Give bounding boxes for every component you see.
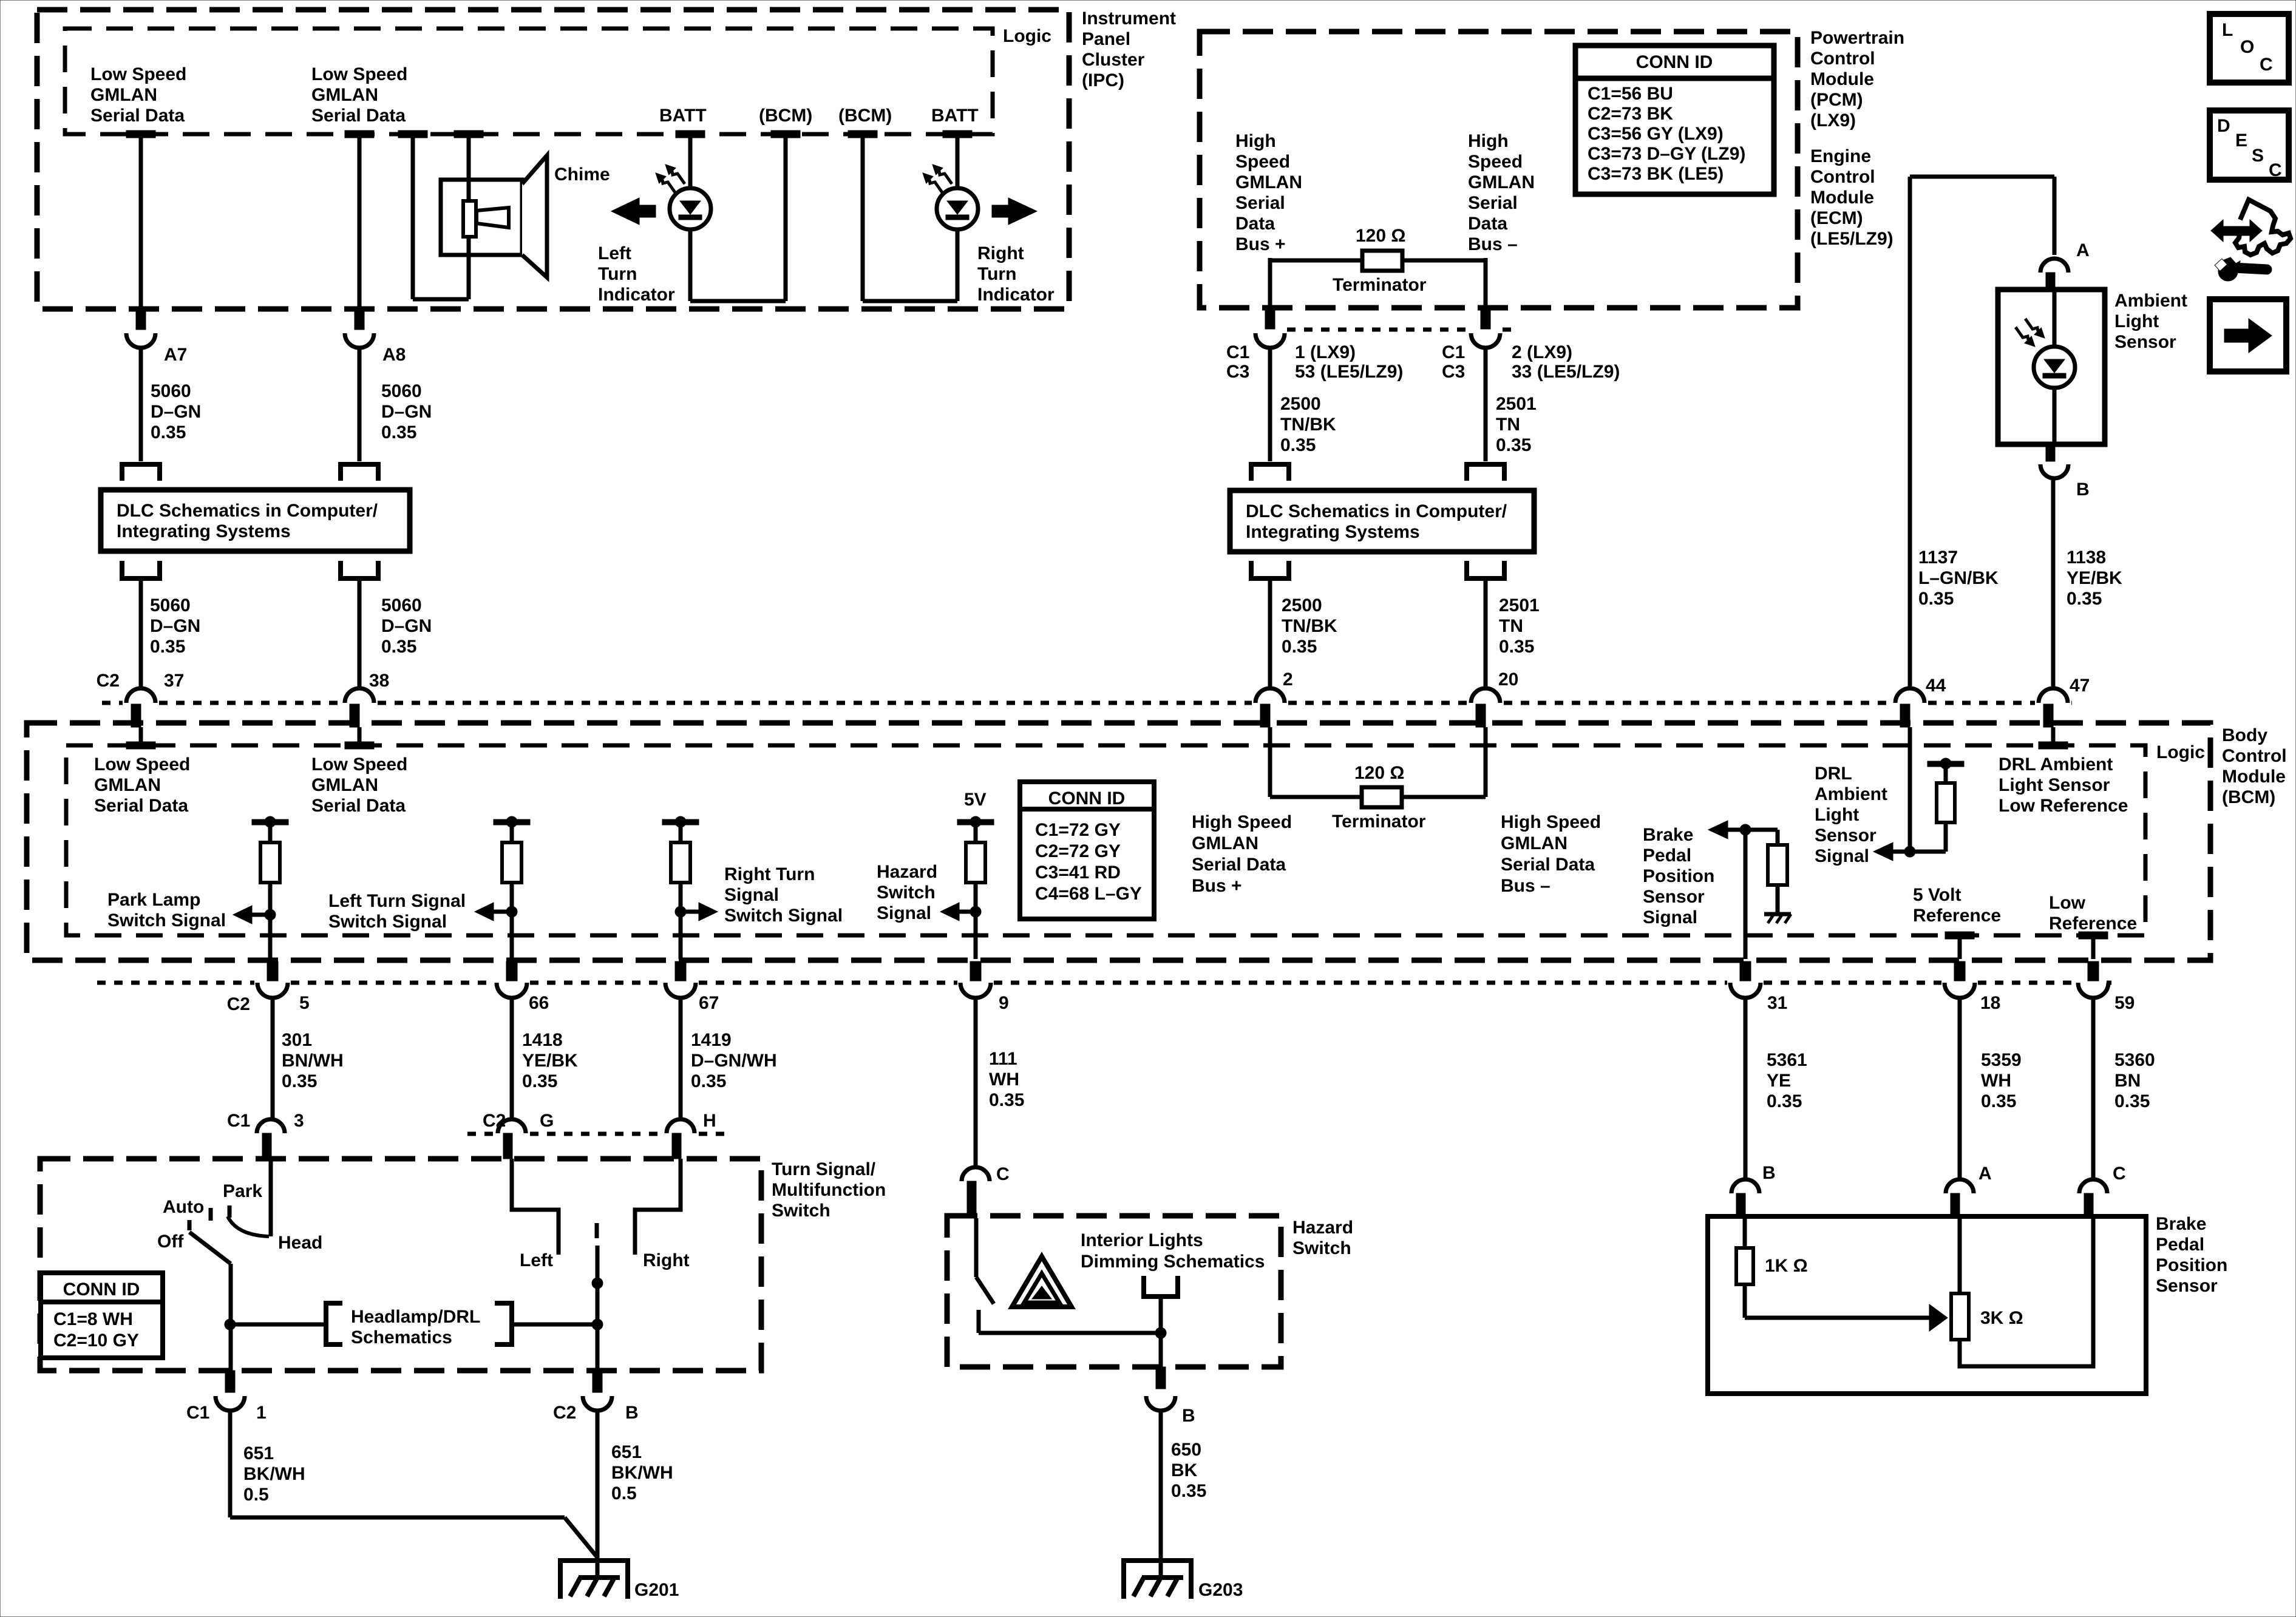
svg-text:2501: 2501 — [1496, 394, 1537, 414]
svg-text:44: 44 — [1926, 676, 1946, 696]
svg-text:Integrating Systems: Integrating Systems — [117, 521, 291, 541]
svg-text:L–GN/BK: L–GN/BK — [1918, 568, 1999, 588]
svg-text:1K Ω: 1K Ω — [1765, 1256, 1808, 1276]
contact stub Off — [188, 1220, 192, 1230]
svg-text:Control: Control — [1810, 167, 1875, 187]
svg-text:Cluster: Cluster — [1082, 50, 1145, 70]
svg-text:2: 2 — [1283, 670, 1293, 690]
label Left Turn Signal Switch Signal — [328, 891, 466, 932]
svg-text:S: S — [2252, 146, 2264, 166]
svg-text:0.5: 0.5 — [611, 1483, 637, 1503]
svg-text:Bus +: Bus + — [1192, 876, 1242, 896]
net label Low Speed GMLAN Serial Data (BCM right) — [311, 754, 407, 816]
svg-text:5060: 5060 — [381, 381, 422, 401]
svg-text:Terminator: Terminator — [1332, 812, 1426, 832]
svg-text:Light: Light — [2114, 311, 2159, 331]
svg-text:0.35: 0.35 — [1282, 637, 1317, 657]
wire 1138 — [2051, 478, 2056, 690]
svg-text:Data: Data — [1468, 214, 1507, 234]
label Hazard Switch Signal — [877, 862, 937, 923]
svg-text:C3=73 BK (LE5): C3=73 BK (LE5) — [1588, 164, 1724, 184]
left turn junction dot — [506, 906, 517, 917]
svg-text:TN/BK: TN/BK — [1282, 616, 1337, 636]
svg-text:Bus –: Bus – — [1501, 876, 1550, 896]
svg-text:G: G — [540, 1111, 554, 1131]
hazard switch input wire — [974, 1218, 979, 1277]
svg-text:B: B — [2076, 480, 2090, 500]
BCM terminator wires — [1270, 727, 1486, 797]
bracket above DLC box2 left — [1251, 464, 1289, 481]
connector label C1 C3 (left) — [1226, 342, 1249, 382]
svg-text:B: B — [625, 1403, 639, 1423]
brake pedal position sensor box — [1708, 1216, 2146, 1394]
svg-text:Reference: Reference — [2049, 914, 2137, 934]
svg-text:CONN ID: CONN ID — [63, 1280, 140, 1300]
svg-text:D–GN: D–GN — [151, 402, 201, 422]
svg-text:Left: Left — [598, 243, 631, 263]
wire from headlamp/DRL schematics (right) — [512, 1323, 597, 1327]
svg-text:High: High — [1468, 131, 1509, 151]
svg-text:Brake: Brake — [1643, 825, 1693, 845]
headlamp switch common wire — [269, 1159, 273, 1236]
svg-text:2500: 2500 — [1280, 394, 1321, 414]
wire 650 to ground — [1159, 1409, 1163, 1578]
svg-text:5060: 5060 — [150, 595, 191, 615]
svg-text:Module: Module — [1810, 69, 1874, 89]
svg-text:Serial Data: Serial Data — [94, 796, 188, 816]
svg-text:Sensor: Sensor — [2156, 1276, 2218, 1296]
svg-text:YE: YE — [1767, 1071, 1791, 1091]
svg-text:C1: C1 — [227, 1111, 250, 1131]
wire label 1137 L-GN/BK 0.35 — [1918, 547, 1999, 609]
wire label 5060 D-GN 0.35 (upper left) — [151, 381, 201, 442]
svg-text:Terminator: Terminator — [1333, 275, 1427, 295]
svg-text:Sensor: Sensor — [2114, 332, 2176, 352]
switch pin H connector — [667, 1119, 695, 1159]
svg-text:D–GN: D–GN — [150, 616, 200, 636]
pin label 1 (LX9) 53 (LE5/LZ9) — [1295, 342, 1403, 382]
svg-text:Dimming Schematics: Dimming Schematics — [1081, 1252, 1265, 1272]
svg-text:DRL: DRL — [1815, 764, 1852, 784]
net label Low Speed GMLAN Serial Data (BCM left) — [94, 754, 190, 816]
svg-text:Module: Module — [1810, 188, 1874, 208]
wire 111 — [974, 997, 978, 1168]
label 5 Volt Reference — [1913, 885, 2001, 926]
sensor pin B connector (BPP) — [1731, 1179, 1759, 1218]
svg-text:GMLAN: GMLAN — [1192, 833, 1258, 853]
svg-text:C2: C2 — [553, 1403, 576, 1423]
svg-text:Left Turn Signal: Left Turn Signal — [328, 891, 466, 911]
svg-text:C3=73 D–GY (LZ9): C3=73 D–GY (LZ9) — [1588, 144, 1745, 164]
svg-text:Sensor: Sensor — [1643, 887, 1705, 907]
svg-text:5 Volt: 5 Volt — [1913, 885, 1961, 905]
svg-text:Switch: Switch — [1292, 1238, 1351, 1258]
svg-text:1138: 1138 — [2067, 547, 2106, 568]
BCM pin 18 connector — [1944, 961, 1975, 998]
svg-text:BN: BN — [2114, 1071, 2141, 1091]
CONN ID table (switch) — [41, 1273, 163, 1358]
resistor 3K ohm (potentiometer) — [1951, 1216, 1969, 1340]
svg-text:C1=8 WH: C1=8 WH — [53, 1309, 133, 1329]
label Interior Lights Dimming Schematics — [1081, 1230, 1265, 1272]
svg-text:DLC Schematics in Computer/: DLC Schematics in Computer/ — [117, 501, 378, 521]
svg-text:650: 650 — [1171, 1440, 1201, 1460]
svg-text:Sensor: Sensor — [1815, 825, 1877, 846]
CONN ID table (PCM) — [1575, 46, 1774, 194]
svg-text:0.35: 0.35 — [151, 422, 186, 442]
BCM pin 59 connector — [2078, 961, 2108, 998]
svg-text:Bus +: Bus + — [1235, 234, 1286, 254]
right turn junction dot — [675, 906, 686, 917]
svg-text:(ECM): (ECM) — [1810, 208, 1863, 228]
svg-text:38: 38 — [369, 671, 389, 691]
switch pin C2-B connector — [583, 1371, 612, 1411]
svg-text:33 (LE5/LZ9): 33 (LE5/LZ9) — [1512, 362, 1620, 382]
svg-text:5361: 5361 — [1767, 1050, 1807, 1070]
svg-text:0.35: 0.35 — [150, 637, 185, 657]
wire 301 — [271, 997, 275, 1120]
svg-text:TN: TN — [1499, 616, 1523, 636]
switch pin C connector — [962, 1167, 990, 1218]
bracket above DLC box right — [341, 464, 378, 481]
svg-text:Serial: Serial — [1235, 193, 1285, 213]
svg-text:TN/BK: TN/BK — [1280, 415, 1336, 435]
chime speaker symbol — [441, 155, 547, 277]
svg-text:0.35: 0.35 — [2114, 1091, 2150, 1111]
svg-text:GMLAN: GMLAN — [1501, 833, 1567, 853]
svg-text:GMLAN: GMLAN — [311, 85, 378, 105]
svg-text:Left: Left — [520, 1250, 553, 1270]
ground G201 — [560, 1561, 628, 1599]
BCM pin 37 connector — [126, 688, 155, 749]
svg-text:A: A — [1978, 1164, 1992, 1184]
svg-text:5360: 5360 — [2114, 1050, 2155, 1070]
wire 1137 routing loop — [1910, 177, 2054, 690]
svg-text:C2=72 GY: C2=72 GY — [1035, 841, 1121, 861]
svg-text:B: B — [1182, 1406, 1195, 1426]
svg-text:H: H — [703, 1111, 716, 1131]
svg-text:5359: 5359 — [1981, 1050, 2022, 1070]
wire 5060 upper left — [139, 347, 143, 461]
headlamp switch output wire — [225, 1264, 236, 1371]
svg-text:Headlamp/DRL: Headlamp/DRL — [351, 1307, 480, 1327]
svg-text:Instrument: Instrument — [1082, 8, 1176, 29]
wire label 2500 TN/BK 0.35 (lower) — [1282, 595, 1337, 657]
svg-text:120 Ω: 120 Ω — [1356, 226, 1405, 246]
switch pin C1-1 connector — [216, 1371, 245, 1411]
svg-text:Hazard: Hazard — [1292, 1218, 1353, 1238]
svg-text:Signal: Signal — [1815, 846, 1869, 866]
svg-text:Reference: Reference — [1913, 906, 2001, 926]
CONN ID table (BCM) — [1020, 782, 1154, 919]
DRL signal junction dot — [1904, 846, 1915, 857]
svg-text:66: 66 — [529, 993, 549, 1013]
svg-text:Serial: Serial — [1468, 193, 1518, 213]
LOC icon box — [2210, 14, 2289, 83]
DRL pull-up resistor — [1910, 766, 1955, 852]
svg-text:0.35: 0.35 — [691, 1071, 726, 1091]
svg-text:Signal: Signal — [1643, 907, 1697, 927]
svg-text:BATT: BATT — [931, 106, 979, 126]
net label High Speed GMLAN Serial Data Bus + (PCM) — [1235, 131, 1302, 254]
svg-text:C1: C1 — [1442, 342, 1465, 362]
svg-text:High Speed: High Speed — [1192, 812, 1292, 832]
svg-text:Indicator: Indicator — [598, 285, 675, 305]
svg-text:L: L — [2222, 20, 2233, 40]
service icon jagged outline — [2235, 200, 2291, 255]
headlamp switch throw arc — [228, 1216, 269, 1236]
turn switch Right contact — [635, 1159, 681, 1255]
hazard switch bus wire — [979, 1327, 1166, 1338]
svg-text:5060: 5060 — [381, 595, 422, 615]
svg-text:DRL Ambient: DRL Ambient — [1999, 754, 2113, 775]
wire label 650 BK 0.35 — [1171, 1440, 1206, 1501]
wire label 5060 D-GN 0.35 (upper right) — [381, 381, 432, 442]
svg-text:0.35: 0.35 — [381, 637, 416, 657]
label DRL Ambient Light Sensor Low Reference — [1999, 754, 2128, 816]
svg-text:0.5: 0.5 — [243, 1485, 269, 1505]
resistor 1K ohm — [1736, 1216, 1753, 1318]
label DRL Ambient Light Sensor Signal — [1815, 764, 1887, 866]
svg-text:Park Lamp: Park Lamp — [107, 890, 200, 910]
left turn pull-up rail T-bar — [494, 816, 530, 827]
table rows CONN ID (BCM) — [1035, 820, 1142, 904]
svg-text:Chime: Chime — [554, 164, 610, 185]
svg-text:A: A — [2076, 240, 2090, 260]
BCM pin 38 connector — [345, 688, 374, 749]
svg-text:(BCM): (BCM) — [759, 106, 812, 126]
svg-text:5: 5 — [299, 993, 310, 1013]
switch connector dotted line — [467, 1132, 494, 1136]
wire 651 left to ground — [230, 1409, 598, 1558]
wire 5360 — [2091, 997, 2096, 1181]
wire label 2501 TN 0.35 (lower) — [1499, 595, 1540, 657]
svg-text:Control: Control — [1810, 49, 1875, 69]
svg-text:1137: 1137 — [1918, 547, 1958, 568]
svg-text:1: 1 — [256, 1403, 267, 1423]
svg-text:2 (LX9): 2 (LX9) — [1512, 342, 1572, 362]
label Low Reference — [2049, 893, 2137, 934]
wire 2501 upper — [1484, 347, 1488, 461]
PCM pin 1/53 connector — [1255, 308, 1285, 348]
turn signal multifunction switch dashed box — [40, 1159, 761, 1371]
LED right turn indicator — [923, 164, 978, 229]
svg-text:Serial Data: Serial Data — [311, 796, 406, 816]
svg-text:Right: Right — [643, 1250, 690, 1270]
wire A7 inside IPC — [126, 131, 155, 309]
BCM pin 31 connector — [1730, 961, 1761, 998]
label Right Turn Signal Switch Signal — [724, 864, 843, 926]
ground G203 — [1124, 1561, 1191, 1599]
label Headlamp/DRL Schematics — [351, 1307, 480, 1347]
wire label 5361 YE 0.35 — [1767, 1050, 1807, 1111]
BCM pin 44 connector — [1895, 688, 1924, 727]
BCM top dotted connector line — [102, 701, 123, 705]
svg-text:Logic: Logic — [1003, 26, 1051, 46]
connector pin A8 — [345, 309, 374, 348]
wire 5361 — [1744, 997, 1748, 1181]
label Turn Signal/Multifunction Switch — [772, 1159, 886, 1221]
svg-text:Engine: Engine — [1810, 146, 1871, 166]
svg-text:D: D — [2217, 116, 2230, 136]
svg-text:18: 18 — [1980, 993, 2000, 1013]
svg-text:C3: C3 — [1442, 362, 1465, 382]
svg-text:0.35: 0.35 — [522, 1071, 557, 1091]
hazard switch dashed box — [947, 1216, 1281, 1367]
BCM pin 67 connector — [665, 961, 696, 998]
wire label 301 BN/WH 0.35 — [282, 1030, 344, 1091]
svg-text:B: B — [1762, 1163, 1776, 1183]
svg-text:O: O — [2240, 37, 2254, 57]
label Powertrain Control Module (PCM) (LX9) — [1810, 28, 1904, 131]
svg-text:Switch Signal: Switch Signal — [328, 912, 447, 932]
svg-text:0.35: 0.35 — [1280, 435, 1316, 455]
BCM inner Logic dashed box — [66, 745, 2145, 935]
service icon wrench — [2215, 257, 2272, 281]
PCM connector dotted line — [1287, 328, 1469, 332]
BCM bottom dotted connector line — [97, 981, 254, 985]
svg-text:CONN ID: CONN ID — [1048, 788, 1126, 808]
svg-text:53 (LE5/LZ9): 53 (LE5/LZ9) — [1295, 362, 1403, 382]
svg-text:C2=73 BK: C2=73 BK — [1588, 104, 1673, 124]
wire label 5359 WH 0.35 — [1981, 1050, 2022, 1111]
photodiode (ambient light sensor) — [2016, 319, 2075, 388]
svg-text:0.35: 0.35 — [1171, 1481, 1206, 1501]
wire label 1418 YE/BK 0.35 — [522, 1030, 578, 1091]
turn switch common lever stub — [595, 1223, 599, 1238]
svg-text:Serial Data: Serial Data — [311, 106, 406, 126]
svg-text:Pedal: Pedal — [1643, 846, 1691, 866]
svg-text:C4=68 L–GY: C4=68 L–GY — [1035, 884, 1142, 904]
contact stub Park — [228, 1205, 232, 1218]
wire label 1138 YE/BK 0.35 — [2067, 547, 2122, 609]
svg-text:651: 651 — [243, 1443, 274, 1463]
PCM pin 2/33 connector — [1471, 308, 1500, 348]
svg-text:Off: Off — [157, 1232, 184, 1252]
bracket above DLC box left — [122, 464, 160, 481]
svg-text:Position: Position — [2156, 1255, 2227, 1275]
svg-text:20: 20 — [1498, 670, 1518, 690]
svg-text:WH: WH — [1981, 1071, 2011, 1091]
svg-text:Turn Signal/: Turn Signal/ — [772, 1159, 876, 1179]
svg-text:Indicator: Indicator — [977, 285, 1055, 305]
pin label 2 (LX9) 33 (LE5/LZ9) — [1512, 342, 1620, 382]
svg-text:Low Speed: Low Speed — [311, 754, 407, 775]
svg-text:Low Speed: Low Speed — [94, 754, 190, 775]
wire 5060 lower left — [139, 578, 143, 690]
svg-text:Low Speed: Low Speed — [90, 64, 186, 84]
svg-text:C: C — [2269, 160, 2282, 180]
left turn signal arrow — [475, 903, 512, 921]
chime circuit left wire — [398, 131, 469, 299]
right-arrow icon box — [2210, 299, 2286, 371]
svg-text:Body: Body — [2222, 725, 2267, 745]
bracket below DLC box left — [122, 561, 160, 578]
net label High Speed GMLAN Serial Data Bus + (BCM) — [1192, 812, 1292, 896]
wire A8 inside IPC — [345, 131, 374, 309]
hazard pull-up resistor — [966, 822, 985, 959]
ambient light sensor box — [1998, 290, 2105, 444]
potentiometer wiper arrow — [1745, 1304, 1948, 1331]
svg-text:Speed: Speed — [1468, 152, 1523, 172]
wire label 2500 TN/BK 0.35 (upper) — [1280, 394, 1336, 455]
svg-text:2501: 2501 — [1499, 595, 1540, 615]
park lamp pull-up resistor — [260, 822, 280, 959]
svg-text:111: 111 — [989, 1049, 1017, 1069]
svg-text:Signal: Signal — [724, 885, 779, 905]
label Body Control Module (BCM) — [2222, 725, 2287, 807]
IPC inner Logic dashed box — [65, 29, 993, 134]
chime circuit right wire — [454, 131, 483, 299]
svg-text:C1=56 BU: C1=56 BU — [1588, 84, 1673, 104]
svg-text:(LE5/LZ9): (LE5/LZ9) — [1810, 229, 1894, 249]
switch pin B connector (hazard) — [1146, 1367, 1175, 1411]
wire label 651 BK/WH 0.5 (left) — [243, 1443, 305, 1505]
svg-text:5060: 5060 — [151, 381, 191, 401]
wire label 5060 D-GN 0.35 (lower right) — [381, 595, 432, 657]
svg-text:D–GN: D–GN — [381, 616, 432, 636]
svg-text:Powertrain: Powertrain — [1810, 28, 1904, 48]
bracket to interior lights dimming schematics — [1144, 1276, 1178, 1297]
svg-text:YE/BK: YE/BK — [522, 1051, 578, 1071]
hazard switch output wire — [1159, 1333, 1163, 1367]
label Right Turn Indicator — [977, 243, 1055, 305]
PCM terminator wires — [1270, 258, 1486, 308]
svg-text:C2: C2 — [483, 1111, 506, 1131]
label Hazard Switch — [1292, 1218, 1353, 1258]
right turn pull-up rail T-bar — [662, 816, 699, 827]
park lamp signal arrow — [233, 906, 270, 924]
svg-text:120 Ω: 120 Ω — [1354, 763, 1404, 783]
resistor 120 ohm (PCM terminator) — [1362, 251, 1402, 271]
brake pedal junction dot — [1740, 824, 1751, 835]
label DLC Schematics (left box) — [117, 501, 378, 541]
svg-text:Head: Head — [278, 1233, 322, 1253]
DESC icon box — [2210, 110, 2289, 180]
service icon double arrow — [2211, 220, 2262, 242]
sensor internal wire — [2053, 290, 2057, 444]
svg-text:G201: G201 — [634, 1580, 679, 1600]
wire from dimming schematics — [1159, 1297, 1163, 1333]
wire to headlamp/DRL schematics (left) — [230, 1323, 326, 1327]
wire low reference — [2079, 932, 2108, 959]
bracket above DLC box2 right — [1467, 464, 1504, 481]
LED left turn indicator — [656, 164, 711, 229]
svg-text:0.35: 0.35 — [1767, 1091, 1802, 1111]
DRL pull-up rail T-bar — [1927, 758, 1964, 769]
label DLC Schematics (right box) — [1246, 501, 1507, 542]
wire label 5060 D-GN 0.35 (lower left) — [150, 595, 200, 657]
svg-text:C: C — [996, 1164, 1010, 1184]
label Left Turn Indicator — [598, 243, 675, 305]
svg-text:Right Turn: Right Turn — [724, 864, 815, 884]
svg-text:GMLAN: GMLAN — [311, 775, 378, 795]
wire label 111 WH 0.35 — [989, 1049, 1024, 1110]
svg-text:CONN ID: CONN ID — [1636, 52, 1713, 72]
switch pin C1-3 connector — [257, 1119, 285, 1159]
svg-text:DLC Schematics in Computer/: DLC Schematics in Computer/ — [1246, 501, 1507, 521]
label Brake Pedal Position Sensor Signal — [1643, 825, 1714, 927]
svg-text:C1: C1 — [1226, 342, 1249, 362]
wire 5359 — [1958, 997, 1962, 1181]
svg-text:Light: Light — [1815, 805, 1859, 825]
svg-text:0.35: 0.35 — [1918, 589, 1954, 609]
svg-text:TN: TN — [1496, 415, 1520, 435]
svg-text:YE/BK: YE/BK — [2067, 568, 2122, 588]
svg-text:(IPC): (IPC) — [1082, 70, 1124, 90]
table rows CONN ID (PCM) — [1588, 84, 1745, 184]
svg-text:High Speed: High Speed — [1501, 812, 1601, 832]
